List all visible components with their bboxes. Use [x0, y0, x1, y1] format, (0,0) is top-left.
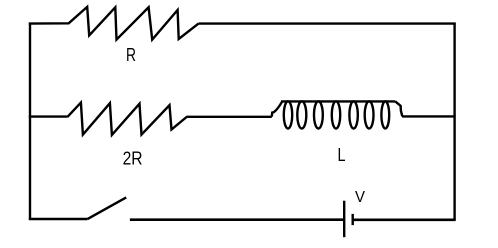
svg-text:V: V — [355, 189, 365, 206]
svg-text:2R: 2R — [123, 148, 143, 169]
resistor 2R — [67, 103, 186, 135]
wire bottom left — [29, 218, 87, 220]
wire middle left — [29, 115, 68, 117]
switch S (open blade) — [87, 197, 126, 219]
wire middle center — [186, 116, 272, 118]
wire bottom center — [130, 218, 344, 221]
inductor L — [272, 101, 403, 128]
battery V short plate — [352, 214, 354, 225]
wire top right — [199, 22, 456, 24]
svg-text:L: L — [338, 144, 346, 165]
wire bottom right — [353, 219, 456, 222]
wire right vertical — [453, 23, 455, 220]
resistor R — [29, 7, 199, 40]
svg-text:R: R — [126, 44, 136, 65]
wire middle right — [402, 115, 456, 117]
battery V long plate — [343, 201, 345, 238]
wire left vertical — [29, 23, 31, 220]
